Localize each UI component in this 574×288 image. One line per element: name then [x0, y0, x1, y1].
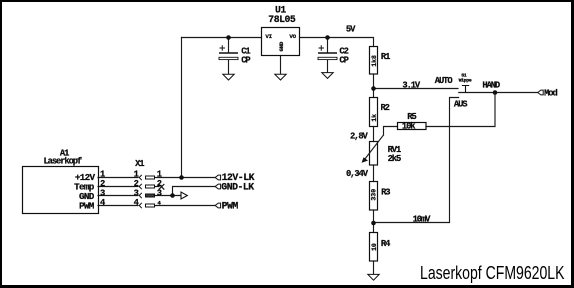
svg-text:78L05: 78L05 — [268, 14, 296, 25]
resistor R2 — [370, 98, 378, 127]
wire switch common to Mod — [459, 92, 538, 94]
svg-text:Laserkopf CFM9620LK: Laserkopf CFM9620LK — [420, 262, 565, 283]
resistor R1 — [370, 47, 378, 75]
ground under R4 — [368, 274, 379, 280]
junction dot pin3/GND — [170, 193, 175, 198]
output flag GND-LK — [215, 184, 220, 189]
svg-text:PWM: PWM — [79, 200, 95, 211]
svg-text:10mV: 10mV — [413, 215, 432, 225]
svg-text:GND: GND — [278, 41, 285, 51]
wire 10mV node to R4 — [373, 223, 375, 233]
junction dot C1/VI — [226, 35, 231, 40]
wire C1 stems — [228, 38, 230, 75]
svg-text:0,34V: 0,34V — [346, 169, 369, 179]
connector X1 pin contacts (chevrons) — [139, 175, 142, 208]
arrow triangle on pin 3 — [181, 192, 187, 199]
svg-text:1k: 1k — [371, 114, 378, 122]
wire X1 pin3 — [98, 195, 181, 197]
resistor R5 — [398, 123, 427, 130]
no-connect X on pin 2 — [159, 184, 165, 190]
wire RV1 to R3 — [373, 165, 375, 182]
junction node HAND — [493, 90, 498, 95]
svg-text:R2: R2 — [381, 103, 390, 113]
ground under U1 — [275, 74, 286, 80]
wire R5 left to RV1 wiper — [384, 127, 398, 136]
wire R1 bottom to 3.1V node — [373, 74, 375, 89]
op components — [23, 28, 427, 262]
junction node 3.1V — [371, 86, 376, 91]
svg-text:VI: VI — [265, 33, 272, 40]
wire GND-LK — [173, 187, 217, 196]
regulator U1 box — [262, 28, 300, 56]
wire R2 to RV1 — [373, 127, 375, 142]
svg-text:10: 10 — [371, 243, 378, 251]
svg-text:R1: R1 — [381, 52, 390, 62]
svg-text:2,8V: 2,8V — [350, 132, 369, 142]
svg-text:Laserkopf: Laserkopf — [44, 157, 82, 167]
capacitor C1 — [219, 45, 238, 59]
svg-text:330: 330 — [371, 189, 378, 201]
capacitor C2 — [318, 45, 337, 59]
ground under C2 — [322, 73, 333, 79]
wire U1 gnd stem — [280, 56, 282, 75]
potentiometer RV1 body — [370, 142, 378, 166]
resistor R4 — [370, 233, 378, 262]
junction dot C2/VO — [325, 35, 330, 40]
junction dot pin1/12V — [179, 175, 184, 180]
wire R4 to ground — [373, 261, 375, 274]
potentiometer RV1 wiper arrow — [362, 135, 384, 163]
wire X1 pin4 — [98, 205, 216, 207]
device A1 box — [23, 167, 99, 214]
resistor R3 — [370, 182, 378, 211]
output flag 12V-LK — [215, 175, 220, 180]
wire VO to R1 corner — [300, 38, 374, 47]
svg-text:10k: 10k — [402, 121, 416, 131]
svg-text:Mod: Mod — [544, 88, 557, 98]
svg-text:CP: CP — [339, 55, 348, 65]
junction node 10mV — [371, 221, 376, 226]
svg-text:X1: X1 — [135, 159, 144, 169]
svg-text:S1: S1 — [461, 72, 467, 78]
wire X1 pin2 — [98, 186, 159, 188]
wire R2 top stem — [373, 89, 375, 98]
wire HAND vertical to R5 — [426, 93, 495, 127]
svg-text:CP: CP — [241, 55, 250, 65]
output flag PWM — [215, 203, 220, 208]
output flag Mod — [538, 90, 543, 95]
svg-text:Wippe: Wippe — [459, 78, 472, 84]
svg-text:R3: R3 — [381, 187, 390, 197]
ground under C1 — [223, 74, 234, 80]
svg-text:HAND: HAND — [482, 80, 500, 90]
svg-text:GND-LK: GND-LK — [221, 182, 254, 193]
svg-text:AUTO: AUTO — [435, 76, 453, 86]
wire C2 stems — [327, 38, 329, 73]
wire X1 pin1 — [98, 177, 216, 179]
svg-text:PWM: PWM — [222, 200, 239, 211]
wire AUS stub down to 10mV node — [374, 98, 459, 223]
svg-text:2k5: 2k5 — [388, 154, 401, 164]
wire vertical 12V feed — [181, 38, 183, 178]
svg-text:VO: VO — [289, 33, 296, 40]
svg-text:AUS: AUS — [454, 99, 467, 109]
connector X1 pin sleeves — [146, 176, 155, 207]
wire R3 to 10mV node — [373, 210, 375, 223]
svg-text:3.1V: 3.1V — [402, 81, 421, 91]
wire 3.1V to AUTO contact — [374, 88, 459, 90]
svg-text:1k8: 1k8 — [371, 55, 378, 67]
wire VI left — [182, 37, 262, 39]
switch S1 actuator — [462, 86, 469, 93]
